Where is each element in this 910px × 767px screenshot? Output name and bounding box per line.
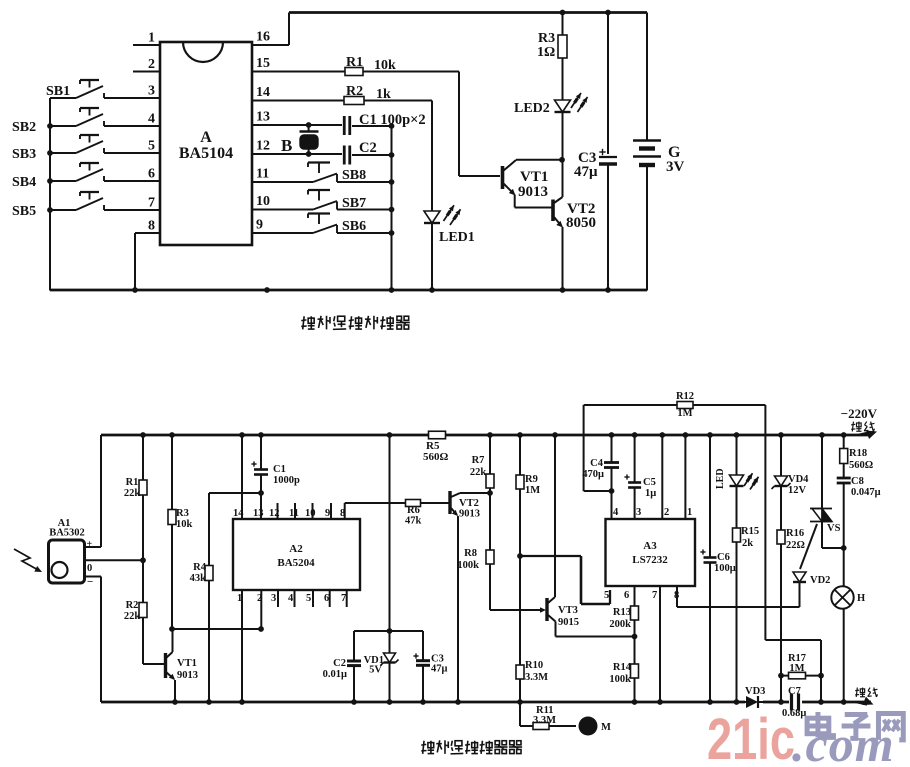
svg-text:10: 10	[305, 508, 316, 519]
svg-text:6: 6	[148, 167, 155, 182]
svg-text:SB6: SB6	[342, 219, 366, 234]
svg-text:22Ω: 22Ω	[786, 540, 805, 551]
svg-text:LED1: LED1	[439, 230, 475, 245]
svg-text:8050: 8050	[566, 215, 596, 231]
svg-text:8: 8	[148, 219, 155, 234]
svg-text:4: 4	[148, 112, 155, 127]
svg-text:11: 11	[256, 167, 269, 182]
svg-text:3.3M: 3.3M	[525, 672, 548, 683]
svg-text:SB2: SB2	[12, 120, 36, 135]
svg-text:SB1: SB1	[46, 84, 70, 99]
svg-text:22k: 22k	[124, 488, 141, 499]
svg-text:R18: R18	[849, 448, 867, 459]
svg-text:3.3M: 3.3M	[533, 715, 556, 726]
svg-text:9: 9	[256, 218, 263, 233]
svg-text:VT1: VT1	[520, 169, 548, 185]
svg-text:1000p: 1000p	[273, 475, 300, 486]
svg-text:SB4: SB4	[12, 175, 36, 190]
svg-text:LS7232: LS7232	[632, 554, 668, 566]
svg-text:3V: 3V	[666, 159, 685, 175]
svg-text:BA5104: BA5104	[179, 145, 233, 162]
svg-text:10k: 10k	[374, 58, 396, 73]
svg-text:9013: 9013	[518, 184, 548, 200]
svg-text:2k: 2k	[742, 538, 753, 549]
svg-text:10k: 10k	[176, 519, 193, 530]
svg-text:470μ: 470μ	[582, 469, 604, 480]
svg-text:2: 2	[148, 57, 155, 72]
svg-text:R1: R1	[346, 55, 363, 70]
svg-text:15: 15	[256, 56, 270, 71]
svg-text:0.047μ: 0.047μ	[851, 487, 881, 498]
svg-text:M: M	[601, 722, 611, 733]
svg-text:C2: C2	[359, 140, 377, 156]
svg-text:R2: R2	[126, 600, 139, 611]
svg-text:R10: R10	[525, 660, 543, 671]
svg-text:1k: 1k	[376, 87, 391, 102]
svg-text:4: 4	[288, 593, 294, 604]
svg-text:B: B	[281, 136, 292, 155]
svg-text:R3: R3	[176, 508, 189, 519]
svg-text:BA5302: BA5302	[49, 528, 85, 539]
svg-text:A3: A3	[643, 540, 657, 552]
svg-text:0.01μ: 0.01μ	[323, 669, 347, 680]
svg-text:VT3: VT3	[558, 605, 578, 616]
svg-text:47μ: 47μ	[431, 664, 448, 675]
svg-text:14: 14	[256, 85, 270, 100]
svg-text:VT2: VT2	[459, 498, 479, 509]
svg-text:3: 3	[271, 593, 276, 604]
svg-text:R15: R15	[741, 526, 759, 537]
svg-text:560Ω: 560Ω	[423, 451, 449, 463]
svg-text:R4: R4	[193, 562, 207, 573]
svg-text:VD4: VD4	[788, 474, 809, 485]
svg-text:R13: R13	[613, 607, 631, 618]
svg-text:47μ: 47μ	[574, 164, 598, 180]
svg-text:R8: R8	[464, 548, 477, 559]
svg-text:12: 12	[256, 139, 270, 154]
svg-text:C6: C6	[717, 552, 730, 563]
svg-text:SB3: SB3	[12, 147, 36, 162]
svg-text:47k: 47k	[405, 516, 422, 527]
svg-text:7: 7	[652, 590, 657, 601]
svg-text:21ic: 21ic	[707, 708, 795, 762]
svg-text:100k: 100k	[609, 674, 631, 685]
svg-text:13: 13	[253, 508, 264, 519]
svg-text:VS: VS	[827, 523, 841, 534]
svg-text:22k: 22k	[124, 611, 141, 622]
svg-text:R6: R6	[407, 505, 420, 516]
svg-text:A: A	[200, 129, 212, 146]
svg-text:1: 1	[237, 593, 242, 604]
svg-text:1: 1	[687, 507, 692, 518]
svg-text:1μ: 1μ	[645, 488, 656, 499]
svg-text:1Ω: 1Ω	[537, 45, 555, 60]
svg-text:R3: R3	[538, 31, 555, 46]
svg-text:9013: 9013	[177, 670, 198, 681]
svg-text:5V: 5V	[369, 665, 382, 676]
svg-text:6: 6	[624, 590, 629, 601]
svg-text:R14: R14	[613, 662, 632, 673]
svg-text:5: 5	[148, 139, 155, 154]
svg-text:200k: 200k	[609, 619, 631, 630]
svg-text:VD3: VD3	[745, 686, 765, 697]
svg-text:1M: 1M	[789, 663, 804, 674]
svg-text:VD2: VD2	[810, 575, 830, 586]
svg-text:12V: 12V	[788, 485, 807, 496]
svg-text:9015: 9015	[558, 617, 579, 628]
svg-text:5: 5	[604, 590, 609, 601]
svg-text:560Ω: 560Ω	[849, 460, 873, 471]
svg-text:100k: 100k	[457, 560, 479, 571]
svg-text:SB8: SB8	[342, 168, 366, 183]
svg-text:22k: 22k	[470, 467, 487, 478]
svg-text:14: 14	[233, 508, 244, 519]
svg-text:3: 3	[636, 507, 641, 518]
svg-text:A2: A2	[289, 543, 303, 555]
svg-text:C1: C1	[273, 464, 286, 475]
svg-text:43k: 43k	[190, 573, 207, 584]
svg-text:LED: LED	[715, 468, 726, 489]
svg-text:12: 12	[269, 508, 280, 519]
svg-text:10: 10	[256, 194, 270, 209]
svg-text:0: 0	[87, 563, 92, 574]
svg-text:7: 7	[341, 593, 346, 604]
svg-text:C4: C4	[590, 458, 604, 469]
svg-text:6: 6	[324, 593, 329, 604]
svg-text:16: 16	[256, 30, 270, 45]
svg-text:4: 4	[613, 507, 619, 518]
svg-text:−220V: −220V	[841, 406, 878, 421]
svg-text:R16: R16	[786, 528, 804, 539]
svg-text:1M: 1M	[525, 485, 540, 496]
svg-text:8: 8	[340, 508, 345, 519]
svg-text:H: H	[857, 593, 865, 604]
svg-text:SB7: SB7	[342, 196, 366, 211]
svg-text:100μ: 100μ	[714, 563, 736, 574]
svg-text:R2: R2	[346, 84, 363, 99]
svg-text:C8: C8	[851, 476, 864, 487]
svg-text:BA5204: BA5204	[277, 557, 315, 569]
svg-text:9: 9	[325, 508, 330, 519]
svg-text:R12: R12	[676, 391, 694, 402]
svg-text:R7: R7	[472, 455, 485, 466]
svg-text:9013: 9013	[459, 509, 480, 520]
svg-text:2: 2	[664, 507, 669, 518]
svg-text:7: 7	[148, 196, 155, 211]
svg-text:C2: C2	[333, 658, 346, 669]
svg-text:R1: R1	[126, 477, 139, 488]
svg-text:C5: C5	[643, 477, 656, 488]
svg-text:VT1: VT1	[177, 658, 197, 669]
svg-text:−: −	[87, 576, 93, 588]
svg-text:LED2: LED2	[514, 101, 550, 116]
svg-text:13: 13	[256, 110, 270, 125]
svg-text:5: 5	[306, 593, 311, 604]
svg-text:+: +	[87, 539, 93, 550]
svg-text:C7: C7	[788, 686, 801, 697]
svg-text:R9: R9	[525, 474, 538, 485]
svg-text:SB5: SB5	[12, 204, 36, 219]
svg-text:1: 1	[148, 31, 155, 46]
svg-text:11: 11	[289, 508, 299, 519]
svg-text:1M: 1M	[677, 408, 692, 419]
svg-text:3: 3	[148, 84, 155, 99]
